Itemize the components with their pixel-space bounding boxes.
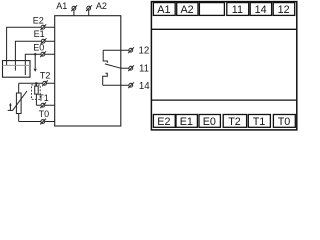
svg-text:A2: A2: [96, 1, 107, 11]
resistor R1 (in dashed box): [35, 83, 39, 105]
block cell A2: [177, 3, 198, 16]
contact NC fixed 12: [103, 50, 107, 63]
terminal E0: [40, 51, 46, 57]
svg-text:A1: A1: [56, 1, 67, 11]
block cell T1: [248, 115, 270, 128]
thermistor RT1: [8, 83, 27, 121]
terminal 14: [128, 82, 134, 88]
block lower divider: [152, 99, 296, 101]
svg-text:E2: E2: [157, 116, 170, 128]
svg-text:T0: T0: [39, 109, 50, 119]
block cell E0: [199, 115, 220, 128]
block cell T2: [223, 115, 246, 128]
wire T2: [19, 82, 55, 84]
svg-text:E2: E2: [33, 16, 44, 26]
wire E1: [15, 41, 54, 70]
contact lever: [105, 64, 121, 68]
wire E2: [7, 27, 55, 65]
terminal T0: [40, 119, 46, 125]
svg-text:T1: T1: [38, 93, 49, 103]
svg-text:12: 12: [139, 46, 150, 57]
sensor box (motor winding): [3, 61, 31, 78]
svg-text:11: 11: [139, 63, 149, 74]
svg-text:14: 14: [255, 4, 267, 16]
device box U1: [55, 16, 121, 126]
svg-text:A1: A1: [157, 4, 170, 16]
terminal E2: [40, 24, 46, 30]
terminal E1: [41, 38, 47, 44]
dashed box around R1: [32, 85, 41, 99]
wire E0: [25, 54, 54, 75]
terminal 11: [128, 65, 134, 71]
block upper divider: [152, 28, 296, 30]
terminal A2: [86, 5, 92, 15]
contact NO fixed 14: [103, 73, 108, 85]
svg-text:T1: T1: [253, 116, 266, 128]
node T2 junction dot: [35, 82, 37, 84]
svg-text:E1: E1: [34, 29, 45, 39]
terminal T1: [40, 102, 46, 108]
svg-text:14: 14: [139, 81, 150, 92]
svg-text:12: 12: [278, 4, 290, 16]
svg-text:E0: E0: [203, 116, 216, 128]
svg-text:T2: T2: [40, 71, 51, 81]
wire 11: [121, 67, 129, 69]
wire 12: [103, 49, 129, 51]
block cell E1: [176, 115, 197, 128]
svg-text:11: 11: [232, 4, 243, 16]
block cell 12: [273, 3, 295, 16]
svg-text:T0: T0: [278, 116, 291, 128]
block cell 11: [227, 3, 249, 16]
block cell 14: [250, 3, 271, 16]
node E0-T2 junction: [34, 53, 36, 55]
block cell E2: [153, 115, 175, 128]
svg-text:E0: E0: [33, 42, 44, 52]
block cell blank: [199, 3, 224, 16]
terminal T2: [42, 80, 48, 86]
wire reset arrow: [34, 54, 36, 68]
wire T1: [36, 104, 54, 106]
wire 14: [103, 84, 129, 86]
block cell A1: [153, 3, 175, 16]
terminal A1: [71, 5, 77, 15]
svg-text:T2: T2: [228, 116, 241, 128]
terminal 12: [128, 47, 134, 53]
thermistor temperature arrow: [9, 103, 12, 111]
terminal block outline: [151, 2, 296, 130]
svg-text:E1: E1: [180, 116, 193, 128]
wire T0: [19, 121, 55, 123]
svg-text:A2: A2: [180, 4, 193, 16]
block cell T0: [273, 115, 295, 128]
sensor box inner line: [3, 64, 31, 66]
